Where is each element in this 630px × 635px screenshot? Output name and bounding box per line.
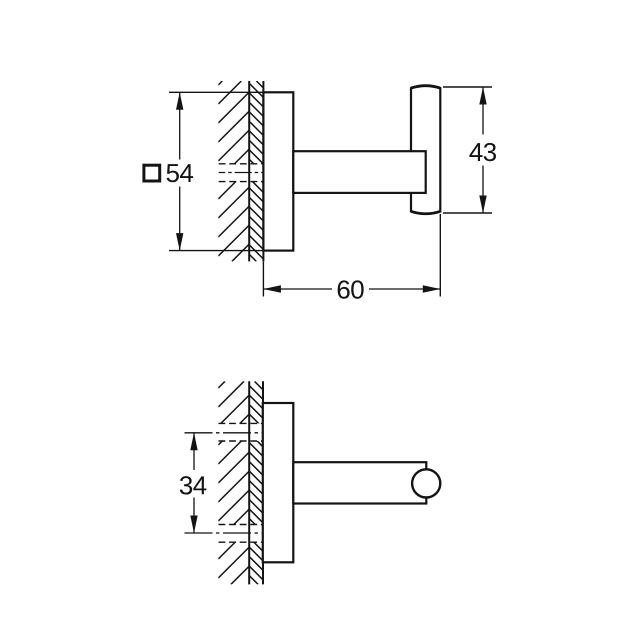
dimension 60: arrowheads	[263, 285, 281, 292]
wall plate (bottom view)	[263, 403, 294, 562]
centerline of arm (top view)	[219, 172, 264, 174]
dimension 34: dimension line	[193, 433, 195, 470]
screw-hole centerline upper (bottom view)	[185, 432, 264, 434]
dimension 34: arrowheads	[190, 433, 197, 451]
hook post cap edges (thicker arcs)	[411, 86, 440, 88]
wall section hatch left band (bottom view)	[218, 381, 249, 584]
wall face line (bottom view)	[262, 381, 264, 584]
screw-hole centerline lower (bottom view)	[185, 532, 264, 534]
dimension 60: value text	[338, 280, 364, 298]
wall section hatch left band (masonry, top view)	[218, 81, 249, 261]
dimension 43: value text	[469, 143, 496, 161]
dimension 34: value text	[180, 476, 207, 494]
wall face line (top view)	[262, 81, 264, 261]
dimension 43: dimension line	[482, 87, 484, 135]
hidden screw-hole edge lines (bottom view, lower hole)	[219, 524, 264, 526]
hook arm (top view)	[293, 151, 425, 193]
dimension 54: value text	[167, 164, 194, 182]
wall hatch apex line (bottom view)	[248, 381, 250, 584]
hook arm (bottom view)	[293, 462, 426, 503]
dimension 60: dimension line	[263, 288, 332, 290]
dimension 60: extension lines	[262, 261, 264, 296]
dimension 54: dimension line	[179, 92, 181, 159]
hidden screw-hole edge lines (top view)	[219, 163, 264, 165]
dimension 43: arrowheads	[479, 87, 486, 105]
wall section hatch right band (bottom view)	[249, 381, 263, 584]
dimension 54: extension lines	[169, 91, 263, 93]
hidden screw-hole edge lines (bottom view, upper hole)	[219, 422, 264, 424]
hook post (bottom view, circle)	[412, 469, 440, 497]
wall plate (top view)	[263, 92, 293, 250]
hook post (top view, side silhouette with domed caps)	[411, 86, 440, 214]
dimension 54: arrowheads	[176, 92, 183, 110]
dimension 54: square symbol	[144, 165, 160, 181]
dimension 43: extension lines	[443, 86, 492, 88]
wall section hatch right band (finish layer, top view)	[249, 81, 263, 261]
wall hatch apex line (top view)	[248, 81, 250, 261]
